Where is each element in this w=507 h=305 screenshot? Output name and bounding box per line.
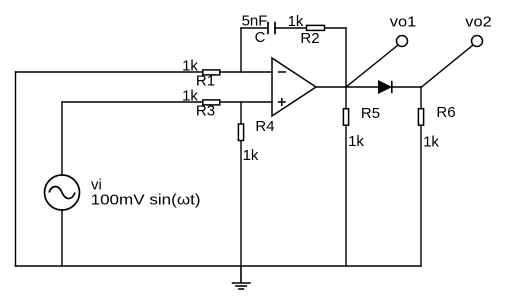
wire: feedback top to capacitor [241, 27, 268, 29]
resistor R5 [343, 105, 380, 150]
wire: R1 right lead to op-amp inverting input [220, 71, 272, 73]
terminal vo2 [465, 13, 492, 46]
wire: R5 bottom lead [345, 126, 347, 266]
source V1 vi [45, 175, 201, 210]
wire: diode to R6 node [392, 86, 422, 88]
svg-text:C: C [255, 29, 266, 46]
svg-text:1k: 1k [348, 133, 364, 150]
wire: R5 top lead [345, 87, 347, 108]
svg-text:1k: 1k [423, 134, 439, 151]
ground [232, 266, 251, 289]
diode D1 [379, 81, 392, 93]
wire: R4 bottom lead [240, 141, 242, 267]
wire: R6 bottom lead [420, 126, 422, 266]
wire: R2 to right feedback corner [325, 27, 346, 29]
svg-text:1k: 1k [243, 147, 259, 164]
wire: R4 top lead [240, 102, 242, 124]
wire: feedback left vertical [240, 28, 242, 72]
svg-text:100mV sin(ωt): 100mV sin(ωt) [91, 192, 201, 209]
wire: outer left vertical [15, 72, 17, 266]
resistor R4 [238, 118, 274, 164]
wire: R6 top lead [420, 87, 422, 108]
resistor R3 [182, 88, 220, 120]
svg-text:R5: R5 [361, 105, 380, 122]
wire: op-amp output to diode [316, 86, 379, 88]
terminal vo1 [390, 13, 417, 46]
svg-text:1k: 1k [288, 13, 304, 30]
wire: diagonal to terminal vo1 [346, 45, 398, 87]
svg-text:vo2: vo2 [465, 13, 492, 30]
wire: diagonal to terminal vo2 [422, 45, 474, 87]
wire: feedback right vertical [345, 28, 347, 87]
wire: capacitor to R2 [275, 27, 306, 29]
wire: inner vertical source top [61, 102, 63, 175]
svg-text:R1: R1 [196, 73, 215, 90]
wire: inner horizontal to R3 [62, 101, 203, 103]
svg-text:5nF: 5nF [242, 13, 268, 30]
svg-text:R4: R4 [255, 118, 274, 135]
op-amp U1 [272, 58, 316, 116]
svg-text:R6: R6 [436, 104, 455, 121]
capacitor C 5nF [242, 13, 275, 47]
wire: R3 right lead to op-amp non-inverting input [220, 101, 272, 103]
resistor R6 [418, 104, 455, 151]
resistor R1 [182, 58, 220, 90]
svg-text:R3: R3 [196, 103, 215, 120]
wire: bottom ground bus [16, 265, 422, 267]
svg-text:R2: R2 [300, 30, 319, 47]
svg-text:vo1: vo1 [390, 13, 417, 30]
wire: inner vertical source bottom [61, 210, 63, 266]
wire: outer left loop top (R1 left lead) [16, 71, 203, 73]
resistor R2 [288, 13, 325, 47]
